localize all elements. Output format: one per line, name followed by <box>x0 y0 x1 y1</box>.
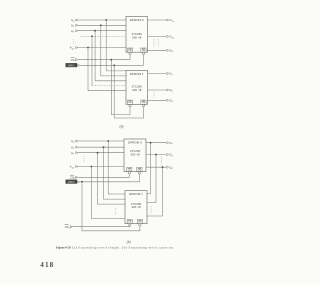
connector A2 (b) <box>76 152 78 154</box>
node A1 branch (a) <box>100 24 102 26</box>
wire phantom address ellipsis row dotted (a) <box>80 35 126 37</box>
terminal circle EPROM1(a) output D6 <box>166 89 168 91</box>
node data bus D6 (b) <box>155 154 157 156</box>
svg-text:CE: CE <box>128 50 132 52</box>
wire A2 into EPROM1 (a) <box>95 80 126 82</box>
wire MRDC drop to EPROM1 OE (a) <box>114 65 143 118</box>
connector A1 (b) <box>76 146 78 148</box>
wire phantom dotted into EPROM1 (a) <box>92 85 126 87</box>
wire A1 to EPROM0 (a) <box>78 24 126 26</box>
wire A14 vertical drop (a) <box>87 48 89 91</box>
EPROM 0 (a) pin CE <box>127 48 132 52</box>
ellipsis dotted data bus lower (b) <box>150 206 152 215</box>
node data bus D0 (b) <box>162 166 164 168</box>
wire A1 to EPROM0 (b) <box>78 146 124 148</box>
svg-text:OE: OE <box>138 170 142 172</box>
EPROM 1 (a) pin OE bubble <box>142 104 144 106</box>
ellipsis dotted outputs EPROM0 (a) col2 <box>157 39 159 48</box>
EPROM 1 (b) pin CE bubble <box>129 224 131 226</box>
EPROM 1 (a) pin CE bubble <box>129 104 131 106</box>
wire A0 to EPROM0 (b) <box>78 140 124 142</box>
wire data bus D0 vertical (b) <box>147 167 163 216</box>
node phantom branch (a) <box>91 35 93 37</box>
connector CS1 (b) <box>70 226 72 228</box>
node MRDC branch (b) <box>81 181 83 183</box>
EPROM 0 (a) pin CE bubble <box>129 52 131 54</box>
terminal circle EPROM0(a) output D14 <box>166 36 168 38</box>
wire OE0 stub to MRDC line (a) <box>143 55 145 66</box>
terminal circle EPROM0(b) output D0 <box>166 166 168 168</box>
wire CS1 to EPROM1 CE (b) <box>73 225 130 228</box>
connector CS (a) <box>76 59 78 61</box>
svg-text:CS: CS <box>71 58 75 62</box>
svg-text:EPROM 1: EPROM 1 <box>130 72 144 76</box>
EPROM 1 (a) body <box>126 71 148 105</box>
node A14 branch (a) <box>87 47 89 49</box>
node A1 branch (b) <box>103 146 105 148</box>
svg-text:32K ×8: 32K ×8 <box>132 88 142 92</box>
svg-text:OE: OE <box>142 102 146 104</box>
wire A14 to EPROM0 (b) <box>78 166 124 168</box>
node A2 branch (a) <box>94 30 96 32</box>
wire A1 vertical drop (a) <box>100 25 102 76</box>
svg-text:Figure 9-28: Figure 9-28 <box>56 245 71 249</box>
svg-text:EPROM 1: EPROM 1 <box>129 192 143 196</box>
ellipsis dotted outputs EPROM1 (a) <box>153 92 155 99</box>
wire A2 to EPROM0 (b) <box>78 152 124 154</box>
wire A1 into EPROM1 (a) <box>101 75 126 77</box>
ellipsis dotted address labels (b) <box>83 156 85 163</box>
node A14 branch (b) <box>90 166 92 168</box>
EPROM 1 (b) pin OE <box>137 220 142 224</box>
svg-text:CE: CE <box>128 222 132 224</box>
EPROM 1 (b) pin CE <box>127 220 132 224</box>
wire data bus D7 vertical (b) <box>147 143 151 194</box>
svg-text:OE: OE <box>142 50 146 52</box>
wire A2 vertical drop (b) <box>98 153 126 204</box>
svg-text:EPROM 0: EPROM 0 <box>130 18 144 22</box>
svg-text:MRDC: MRDC <box>68 64 75 67</box>
wire A2 vertical drop (a) <box>94 31 96 81</box>
wire CE0 stub to CS line (a) <box>129 55 131 60</box>
svg-text:OE: OE <box>138 222 142 224</box>
wire MRDC (a) <box>80 64 144 66</box>
connector A14 (b) <box>76 165 78 167</box>
svg-text:(a): (a) <box>120 125 124 129</box>
wire EPROM1(a) output D0 <box>148 99 167 101</box>
terminal circle EPROM0(b) output D7 <box>166 142 168 144</box>
EPROM 0 (b) pin OE bubble <box>138 172 140 174</box>
connector CS0 (b) <box>76 176 78 178</box>
svg-text:CE: CE <box>128 102 132 104</box>
connector A14 (a) <box>76 46 78 48</box>
connector A1 (a) <box>76 24 78 26</box>
wire CS0 to EPROM0 CE (b) <box>78 174 129 177</box>
EPROM 0 (b) body <box>124 139 146 172</box>
EPROM 0 (b) pin CE bubble <box>128 172 130 174</box>
node A0 branch (b) <box>107 140 109 142</box>
EPROM 1 (a) pin OE <box>141 100 146 104</box>
connector A0 (b) <box>76 140 78 142</box>
wire A2 to EPROM0 (a) <box>78 30 126 32</box>
node A2 branch (b) <box>97 152 99 154</box>
wire EPROM0(a) output D14 <box>148 36 167 38</box>
wire phantom vertical drop (a) <box>91 36 93 85</box>
wire A0 to EPROM0 (a) <box>78 19 126 21</box>
wire EPROM1(a) output D7 <box>148 73 167 75</box>
wire A0 vertical drop (b) <box>108 141 125 194</box>
EPROM 0 (a) pin OE <box>141 48 146 52</box>
svg-text:MRDC: MRDC <box>68 181 75 184</box>
connector A2 (a) <box>76 30 78 32</box>
ellipsis dotted address into EPROM1 (b) <box>115 208 117 214</box>
ellipsis dotted data bus upper (b) <box>161 156 163 166</box>
EPROM 1 (b) body <box>125 191 147 224</box>
svg-text:CE: CE <box>128 170 132 172</box>
svg-text:EPROM 0: EPROM 0 <box>128 141 142 145</box>
connector MRDC (a) <box>78 64 80 66</box>
wire A14 into EPROM1 (a) <box>88 90 126 92</box>
terminal circle EPROM0(b) output D6 <box>166 154 168 156</box>
wire CS (a) <box>78 59 130 61</box>
node data bus D7 (b) <box>150 142 152 144</box>
node CS branch (a) <box>110 59 112 61</box>
connector A0 (a) <box>76 19 78 21</box>
wire EPROM0(b) output D6 <box>146 154 166 156</box>
svg-text:(b): (b) <box>127 240 131 244</box>
EPROM 0 (a) pin OE bubble <box>142 52 144 54</box>
wire A0 vertical drop (a) <box>105 20 107 71</box>
wire EPROM0(b) output D7 <box>146 142 166 144</box>
EPROM 1 (a) pin CE <box>127 100 132 104</box>
wire MRDC to EPROM0 OE (b) <box>80 174 139 182</box>
svg-text:32K ×8: 32K ×8 <box>131 205 141 209</box>
wire MRDC drop to EPROM1 OE (b) <box>82 182 140 231</box>
EPROM 0 (b) pin OE <box>137 167 142 171</box>
wire EPROM0(b) output D0 <box>146 166 166 168</box>
connector MRDC (b) <box>78 181 80 183</box>
terminal circle EPROM0(a) output D15 <box>166 19 168 21</box>
wire EPROM0(a) output D15 <box>148 19 167 21</box>
label MRDC input (a) <box>66 63 78 67</box>
wire A14 to EPROM0 (a) <box>78 47 126 49</box>
wire EPROM1(a) output D6 <box>148 89 167 91</box>
svg-text:32K ×8: 32K ×8 <box>132 36 142 40</box>
EPROM 0 (b) pin CE <box>127 167 132 171</box>
wire A14 vertical drop (b) <box>91 167 125 219</box>
wire A0 into EPROM1 (a) <box>106 70 126 72</box>
terminal circle EPROM0(a) output D8 <box>166 49 168 51</box>
EPROM 0 (a) body <box>126 17 148 53</box>
wire CS drop to EPROM1 CE (a) <box>111 60 130 115</box>
node A0 branch (a) <box>105 19 107 21</box>
wire data bus D6 vertical (b) <box>147 155 156 203</box>
ellipsis dotted address labels (a) <box>73 40 75 45</box>
terminal circle EPROM1(a) output D0 <box>166 99 168 101</box>
ellipsis dotted outputs EPROM0 (a) col1 <box>153 39 155 48</box>
EPROM 1 (b) pin OE bubble <box>139 224 141 226</box>
label MRDC input (b) <box>66 180 78 184</box>
node MRDC branch (a) <box>113 64 115 66</box>
svg-text:32K ×8: 32K ×8 <box>130 153 140 157</box>
wire EPROM0(a) output D8 <box>148 49 167 51</box>
wire A1 vertical drop (b) <box>104 147 126 199</box>
svg-text:(a) Expanding word length. (b): (a) Expanding word length. (b) Expanding… <box>72 245 174 249</box>
svg-text:418: 418 <box>40 261 54 269</box>
terminal circle EPROM1(a) output D7 <box>166 73 168 75</box>
